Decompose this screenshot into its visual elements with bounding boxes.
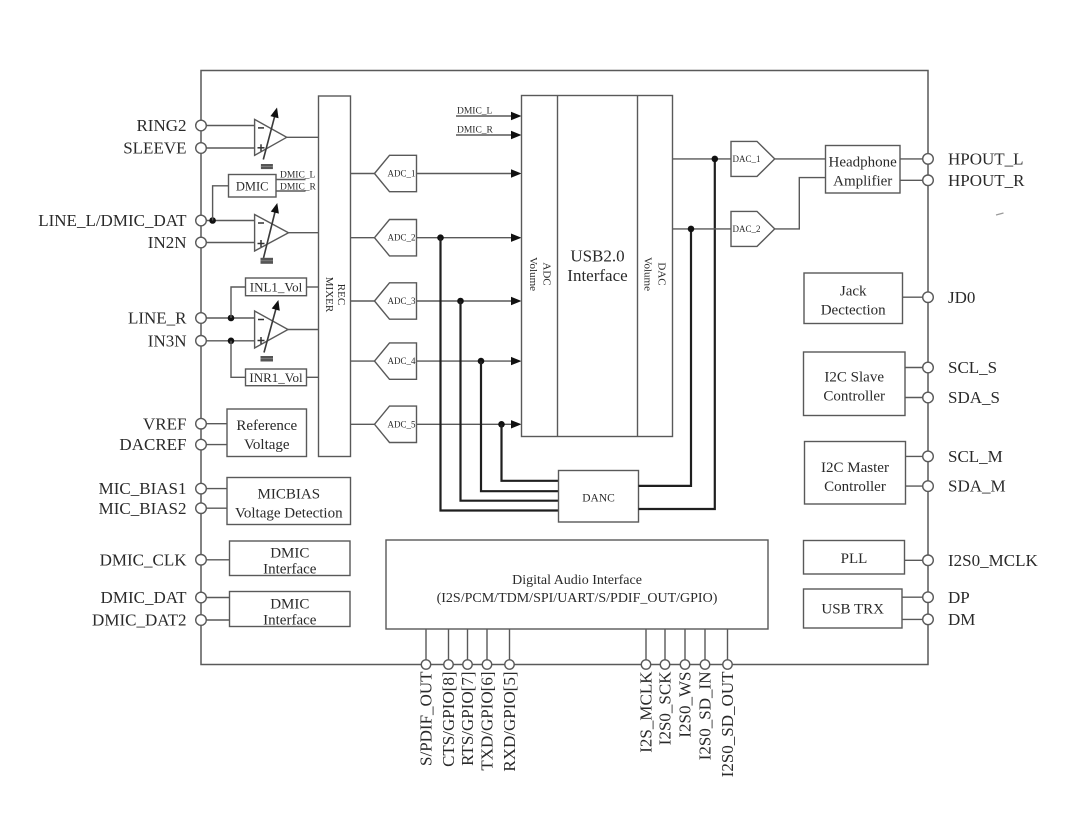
wire IN3N to op-amp A3 non-inverting input <box>206 340 254 342</box>
pin JD0 <box>923 292 934 303</box>
stub wire DAI to RTS/GPIO[7] pin <box>467 629 469 660</box>
op-amp A2 (LINE_L/IN2N PGA) <box>255 215 289 252</box>
node on DAC_2 wire (DANC tap) <box>688 226 695 233</box>
pin RING2 <box>196 120 207 131</box>
svg-text:MIC_BIAS1: MIC_BIAS1 <box>99 479 187 498</box>
wire USB TRX to DM pin <box>902 618 923 620</box>
block I2C Master Controller <box>805 442 906 505</box>
block REC MIXER <box>319 96 351 457</box>
stub wire DAI to I2S0_SCK pin <box>664 629 666 660</box>
svg-text:MIXER: MIXER <box>323 277 335 313</box>
divider ADC Volume column <box>557 96 559 437</box>
arrowhead ADC_2 into USB interface <box>511 234 522 242</box>
stub wire DAI to I2S0_SD_OUT pin <box>727 629 729 660</box>
wire REC MIXER to ADC_1 <box>351 173 375 175</box>
wire PLL to I2S0_MCLK pin <box>905 559 923 561</box>
svg-text:SDA_M: SDA_M <box>948 477 1006 496</box>
svg-text:DMIC_R: DMIC_R <box>457 125 494 135</box>
svg-text:DMIC: DMIC <box>236 180 269 194</box>
svg-text:SCL_S: SCL_S <box>948 358 997 377</box>
stub wire DAI to TXD/GPIO[6] pin <box>486 629 488 660</box>
svg-text:DACREF: DACREF <box>119 435 186 454</box>
svg-text:SCL_M: SCL_M <box>948 447 1003 466</box>
block Jack Dectection <box>804 273 903 324</box>
stub wire DAI to I2S0_SD_IN pin <box>704 629 706 660</box>
wire ADC_2 to USB interface <box>417 237 512 239</box>
stub wire DAI to I2S0_WS pin <box>684 629 686 660</box>
stub wire DAI to S/PDIF_OUT pin <box>425 629 427 660</box>
node on ADC_2 wire (DANC tap) <box>437 234 444 241</box>
node on LINE_R wire (branch to INL1_Vol) <box>228 315 235 322</box>
svg-text:DMIC_DAT2: DMIC_DAT2 <box>92 611 186 630</box>
stub wire DAI to CTS/GPIO[8] pin <box>448 629 450 660</box>
svg-text:I2S_MCLK: I2S_MCLK <box>637 671 656 753</box>
wire DACREF to Reference Voltage block <box>206 444 227 446</box>
bus ADC_2 tap to DANC input 4 <box>441 238 559 511</box>
stub wire DAI to RXD/GPIO[5] pin <box>509 629 511 660</box>
wire I2C Master Controller to SDA_M pin <box>906 485 923 487</box>
svg-text:JD0: JD0 <box>948 288 975 307</box>
stray mark artifact <box>996 213 1004 215</box>
svg-text:Dectection: Dectection <box>821 302 886 318</box>
pin LINE_L/DMIC_DAT <box>196 215 207 226</box>
wire VREF to Reference Voltage block <box>206 423 227 425</box>
pin SLEEVE <box>196 143 207 154</box>
stub line DMIC_L output of DMIC block <box>276 179 306 181</box>
svg-text:LINE_R: LINE_R <box>128 309 187 328</box>
wire Jack Dectection to JD0 pin <box>903 296 923 298</box>
block Reference Voltage <box>227 409 307 457</box>
wire REC MIXER to ADC_4 <box>351 360 375 362</box>
pin LINE_R <box>196 313 207 324</box>
node on LINE_L wire (branch to DMIC block) <box>209 217 216 224</box>
block DMIC Interface 1 <box>230 541 351 576</box>
pin I2S0_SD_OUT <box>723 660 732 669</box>
pin TXD/GPIO[6] <box>482 660 491 669</box>
svg-text:RXD/GPIO[5]: RXD/GPIO[5] <box>500 672 519 772</box>
wire USB interface to DAC_2 <box>673 228 732 230</box>
wire DAC_2 to Headphone Amplifier <box>775 178 826 229</box>
svg-text:Voltage: Voltage <box>244 437 290 453</box>
svg-text:INL1_Vol: INL1_Vol <box>250 280 303 295</box>
DAC converter DAC_2 <box>731 211 775 246</box>
block DANC <box>559 471 639 523</box>
svg-text:DMIC_CLK: DMIC_CLK <box>100 550 188 569</box>
wire op-amp A3 output to REC MIXER <box>288 329 319 331</box>
pin DM <box>923 614 934 625</box>
wire ADC_5 to USB interface <box>417 423 512 425</box>
svg-text:Headphone: Headphone <box>829 155 898 171</box>
stub line DMIC_R output of DMIC block <box>276 190 306 192</box>
pin HPOUT_R <box>923 175 934 186</box>
svg-text:Amplifier: Amplifier <box>833 174 892 190</box>
block PLL <box>804 541 905 575</box>
ADC converter ADC_3 <box>375 283 417 319</box>
node on ADC_5 wire (DANC tap) <box>498 421 505 428</box>
svg-text:HPOUT_R: HPOUT_R <box>948 171 1025 190</box>
node on ADC_3 wire (DANC tap) <box>457 298 464 305</box>
svg-text:Voltage Detection: Voltage Detection <box>235 505 343 521</box>
pin SCL_M <box>923 451 934 462</box>
svg-text:TXD/GPIO[6]: TXD/GPIO[6] <box>478 672 497 771</box>
pin CTS/GPIO[8] <box>444 660 453 669</box>
svg-text:Jack: Jack <box>840 283 867 299</box>
arrowhead ADC_1 into USB interface <box>511 169 522 177</box>
ADC converter ADC_1 <box>375 155 417 191</box>
pin SCL_S <box>923 362 934 373</box>
wire INR1_Vol output to REC MIXER <box>307 376 319 378</box>
wire LINE_R to op-amp A3 inverting input <box>206 317 254 319</box>
bus ADC_4 tap to DANC input 2 <box>481 361 559 491</box>
svg-text:Volume: Volume <box>642 257 654 291</box>
svg-text:DM: DM <box>948 610 975 629</box>
svg-text:I2S0_SD_IN: I2S0_SD_IN <box>696 672 715 761</box>
wire MIC_BIAS1 to MICBIAS block <box>206 488 227 490</box>
svg-text:ADC_1: ADC_1 <box>387 169 415 179</box>
wire ADC_1 to USB interface <box>417 173 512 175</box>
arrowhead ADC_3 into USB interface <box>511 297 522 305</box>
svg-text:ADC_3: ADC_3 <box>387 296 416 306</box>
wire DMIC_DAT to DMIC Interface 2 <box>206 597 229 599</box>
bus ADC_5 tap to DANC input 1 <box>502 424 559 481</box>
pin RTS/GPIO[7] <box>463 660 472 669</box>
svg-text:RTS/GPIO[7]: RTS/GPIO[7] <box>458 672 477 766</box>
pin DMIC_DAT <box>196 592 207 603</box>
wire REC MIXER to ADC_3 <box>351 300 375 302</box>
svg-text:Interface: Interface <box>567 266 627 285</box>
svg-text:DP: DP <box>948 588 970 607</box>
ADC converter ADC_5 <box>375 406 417 442</box>
op-amp A1 (RING2/SLEEVE PGA) <box>255 119 287 155</box>
block Headphone Amplifier <box>826 146 901 194</box>
pin MIC_BIAS1 <box>196 483 207 494</box>
pin I2S_MCLK <box>641 660 650 669</box>
svg-text:SDA_S: SDA_S <box>948 388 1000 407</box>
pin I2S0_SD_IN <box>700 660 709 669</box>
svg-text:DMIC: DMIC <box>270 596 309 612</box>
svg-text:RING2: RING2 <box>136 116 186 135</box>
bus DANC output to DAC_1 line <box>639 159 715 509</box>
wire ADC_4 to USB interface <box>417 360 512 362</box>
svg-text:Controller: Controller <box>824 479 886 495</box>
svg-text:LINE_L/DMIC_DAT: LINE_L/DMIC_DAT <box>38 211 187 230</box>
pin HPOUT_L <box>923 154 934 165</box>
svg-text:DMIC_DAT: DMIC_DAT <box>101 588 188 607</box>
wire DMIC_R into USB interface <box>456 134 511 136</box>
svg-text:MICBIAS: MICBIAS <box>258 486 321 502</box>
wire ADC_3 to USB interface <box>417 300 512 302</box>
svg-text:SLEEVE: SLEEVE <box>123 139 186 158</box>
wire IN2N to op-amp A2 non-inverting input <box>206 242 254 244</box>
svg-text:DANC: DANC <box>582 493 615 505</box>
block USB TRX <box>804 589 903 628</box>
wire DMIC_L into USB interface <box>456 115 511 117</box>
svg-text:IN3N: IN3N <box>148 331 187 350</box>
DAC converter DAC_1 <box>731 141 775 176</box>
divider DAC Volume column <box>637 96 639 437</box>
wire SLEEVE to op-amp A1 non-inverting input <box>206 147 254 149</box>
wire USB TRX to DP pin <box>902 596 923 598</box>
svg-text:ADC_5: ADC_5 <box>387 419 416 429</box>
wire op-amp A2 output to REC MIXER <box>289 232 319 234</box>
bus DANC output to DAC_2 line <box>639 229 692 486</box>
pin DMIC_CLK <box>196 555 207 566</box>
wire I2C Slave Controller to SDA_S pin <box>905 397 923 399</box>
pin MIC_BIAS2 <box>196 503 207 514</box>
node on DAC_1 wire (DANC tap) <box>712 156 719 163</box>
arrowhead ADC_5 into USB interface <box>511 420 522 428</box>
wire Headphone Amplifier to HPOUT_L pin <box>900 158 923 160</box>
svg-text:DMIC_L: DMIC_L <box>457 106 493 116</box>
svg-text:DAC: DAC <box>655 262 667 285</box>
svg-text:I2C Master: I2C Master <box>821 460 889 476</box>
arrowhead DMIC_R into USB interface <box>511 131 522 139</box>
node on IN3N wire (branch to INR1_Vol) <box>228 338 235 345</box>
stub wire DAI to I2S_MCLK pin <box>645 629 647 660</box>
block DMIC <box>229 175 277 198</box>
wire DMIC_CLK to DMIC Interface 1 <box>206 559 229 561</box>
pin I2S0_MCLK <box>923 555 934 566</box>
block INR1_Vol <box>246 369 307 386</box>
svg-text:DAC_2: DAC_2 <box>732 224 760 234</box>
pin RXD/GPIO[5] <box>505 660 514 669</box>
node on ADC_4 wire (DANC tap) <box>478 358 485 365</box>
wire MIC_BIAS2 to MICBIAS block <box>206 507 227 509</box>
ADC converter ADC_2 <box>375 220 417 256</box>
pin I2S0_WS <box>680 660 689 669</box>
wire REC MIXER to ADC_5 <box>351 423 375 425</box>
svg-text:I2S0_MCLK: I2S0_MCLK <box>948 551 1038 570</box>
svg-text:REC: REC <box>335 284 347 305</box>
pin DMIC_DAT2 <box>196 615 207 626</box>
wire DAC_1 to Headphone Amplifier <box>775 158 826 160</box>
svg-text:HPOUT_L: HPOUT_L <box>948 150 1024 169</box>
svg-text:(I2S/PCM/TDM/SPI/UART/S/PDIF_O: (I2S/PCM/TDM/SPI/UART/S/PDIF_OUT/GPIO) <box>437 591 718 606</box>
block I2C Slave Controller <box>804 352 906 416</box>
arrowhead ADC_4 into USB interface <box>511 357 522 365</box>
svg-text:I2S0_SD_OUT: I2S0_SD_OUT <box>718 671 737 777</box>
block INL1_Vol <box>246 278 307 296</box>
wire LINE_L/DMIC_DAT to op-amp A2 inverting input <box>206 220 254 222</box>
wire I2C Slave Controller to SCL_S pin <box>905 367 923 369</box>
svg-text:DMIC_L: DMIC_L <box>280 171 316 181</box>
bus ADC_3 tap to DANC input 3 <box>461 301 559 501</box>
pin I2S0_SCK <box>660 660 669 669</box>
block USB2.0 Interface <box>522 96 673 437</box>
wire LINE_L branch up to DMIC block input <box>213 186 229 221</box>
wire I2C Master Controller to SCL_M pin <box>906 455 923 457</box>
wire INL1_Vol output to REC MIXER <box>307 286 319 288</box>
svg-text:DAC_1: DAC_1 <box>732 154 760 164</box>
pin SDA_S <box>923 392 934 403</box>
block DMIC Interface 2 <box>230 592 351 627</box>
wire op-amp A1 output to REC MIXER <box>287 136 319 138</box>
pin DACREF <box>196 439 207 450</box>
block Digital Audio Interface <box>386 540 768 629</box>
pin IN3N <box>196 336 207 347</box>
svg-text:I2S0_SCK: I2S0_SCK <box>656 671 675 745</box>
svg-text:Interface: Interface <box>263 612 317 628</box>
svg-text:MIC_BIAS2: MIC_BIAS2 <box>99 499 187 518</box>
svg-text:ADC: ADC <box>540 262 552 285</box>
svg-text:Controller: Controller <box>823 388 885 404</box>
wire RING2 to op-amp A1 inverting input <box>206 125 254 127</box>
op-amp A3 (LINE_R/IN3N PGA) <box>255 311 288 348</box>
svg-text:DMIC: DMIC <box>270 545 309 561</box>
wire branch down to INR1_Vol input <box>231 341 246 378</box>
svg-text:S/PDIF_OUT: S/PDIF_OUT <box>417 671 436 766</box>
svg-text:I2S0_WS: I2S0_WS <box>676 672 695 738</box>
ADC converter ADC_4 <box>375 343 417 379</box>
wire branch up to INL1_Vol input <box>231 287 246 318</box>
pin IN2N <box>196 237 207 248</box>
svg-text:DMIC_R: DMIC_R <box>280 182 317 192</box>
svg-text:PLL: PLL <box>841 551 868 567</box>
wire REC MIXER to ADC_2 <box>351 237 375 239</box>
svg-text:I2C Slave: I2C Slave <box>824 369 884 385</box>
svg-text:USB TRX: USB TRX <box>821 602 884 618</box>
pin SDA_M <box>923 481 934 492</box>
arrowhead DMIC_L into USB interface <box>511 112 522 120</box>
svg-text:INR1_Vol: INR1_Vol <box>249 370 303 385</box>
pin DP <box>923 592 934 603</box>
pin S/PDIF_OUT <box>421 660 430 669</box>
wire Headphone Amplifier to HPOUT_R pin <box>900 179 923 181</box>
wire USB interface to DAC_1 <box>673 158 732 160</box>
pin VREF <box>196 418 207 429</box>
svg-text:USB2.0: USB2.0 <box>570 247 624 266</box>
svg-text:VREF: VREF <box>143 414 186 433</box>
svg-text:Digital Audio Interface: Digital Audio Interface <box>512 573 642 588</box>
wire DMIC_DAT2 to DMIC Interface 2 <box>206 619 229 621</box>
svg-text:Volume: Volume <box>527 257 539 291</box>
chip outline frame <box>201 71 928 665</box>
block MICBIAS Voltage Detection <box>227 478 351 525</box>
svg-text:ADC_4: ADC_4 <box>387 356 416 366</box>
svg-text:CTS/GPIO[8]: CTS/GPIO[8] <box>439 672 458 767</box>
svg-text:Interface: Interface <box>263 561 317 577</box>
svg-text:ADC_2: ADC_2 <box>387 233 415 243</box>
svg-text:Reference: Reference <box>236 418 297 434</box>
svg-text:IN2N: IN2N <box>148 233 187 252</box>
